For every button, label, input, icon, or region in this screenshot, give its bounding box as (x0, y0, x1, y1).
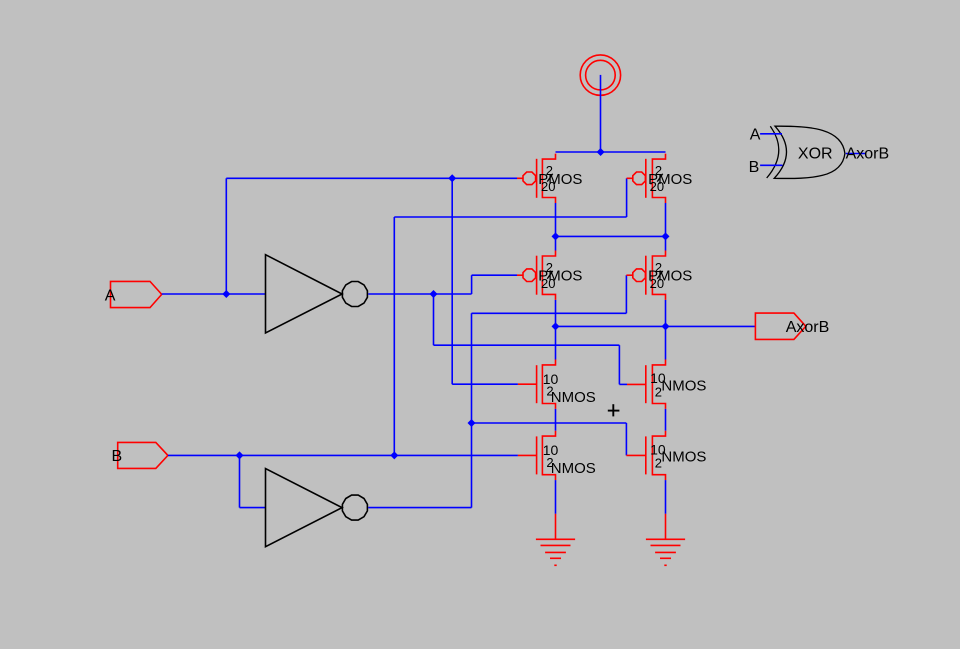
ground left (536, 514, 575, 566)
transistor PMOS mid-left (523, 251, 556, 300)
wire A pin to junction (162, 293, 227, 295)
wire Abar to corner (434, 293, 472, 295)
wire B to PMOS1 right gate circle (627, 177, 634, 179)
value label 2/20 PMOS top-right (648, 163, 692, 194)
wire Abar to NMOS1 right gate lead (619, 383, 627, 385)
value label 10/2 NMOS upper-right (650, 370, 706, 399)
wire Bbar down to NMOS2 right gate (625, 423, 627, 455)
value label 10/2 NMOS lower-right (650, 441, 706, 470)
wire Abar lower horizontal (434, 344, 620, 346)
node middle right junction (662, 232, 670, 240)
wire output to NMOS1 left (555, 326, 557, 359)
node output left junction (552, 322, 560, 330)
inverter U1 (A) (266, 255, 368, 333)
node A top junction (448, 174, 456, 182)
value label 2/20 PMOS mid-left (538, 260, 582, 291)
node A junction (222, 290, 230, 298)
wire Abar up (471, 275, 473, 294)
wire B down to inverter2 (239, 455, 241, 507)
value label 2/20 PMOS top-left (538, 163, 582, 194)
transistor PMOS top-right (633, 154, 666, 203)
wire XOR input B (760, 164, 782, 166)
transistor PMOS top-left (523, 154, 556, 203)
wire NMOS2 left to ground (555, 480, 557, 514)
XOR gate symbol (767, 126, 845, 178)
wire B to NMOS2 left gate (394, 454, 518, 456)
svg-text:A: A (105, 288, 116, 305)
wire XOR input A (760, 133, 782, 135)
node B junction 2 (390, 451, 398, 459)
wire PMOS2 right drain down (665, 300, 667, 327)
node Abar junction (430, 290, 438, 298)
svg-text:PMOS: PMOS (648, 268, 692, 285)
wire A up (225, 178, 227, 294)
node middle left junction (552, 232, 560, 240)
svg-text:B: B (749, 159, 760, 176)
wire Abar down to NMOS1 right gate (618, 345, 620, 384)
svg-text:NMOS: NMOS (661, 378, 706, 395)
ground right (646, 514, 685, 566)
wire middle rail (556, 235, 666, 237)
wire Abar down (433, 294, 435, 345)
output pin AxorB (755, 313, 805, 339)
wire A to NMOS1 left gate (452, 383, 518, 385)
value label 10/2 NMOS upper-left (543, 371, 596, 406)
svg-text:A: A (750, 126, 761, 143)
wire PMOS2 left drain down (555, 300, 557, 327)
svg-text:PMOS: PMOS (648, 171, 692, 188)
svg-text:AxorB: AxorB (786, 319, 830, 336)
wire NMOS2 right to ground (665, 480, 667, 514)
svg-text:NMOS: NMOS (661, 449, 706, 466)
transistor NMOS upper-right (627, 360, 666, 409)
wire Bbar to PMOS2 right gate circle (626, 274, 633, 276)
node output right junction (662, 322, 670, 330)
svg-text:PMOS: PMOS (538, 171, 582, 188)
svg-text:B: B (112, 448, 123, 465)
wire VDD vertical (600, 75, 602, 152)
wire to PMOS2 left source (555, 236, 557, 250)
transistor PMOS mid-right (633, 251, 666, 300)
wire B top horizontal (394, 216, 626, 218)
PMOS mid-left gate lead (517, 274, 523, 276)
wire B to second junction (240, 454, 395, 456)
value label 2/20 PMOS mid-right (648, 260, 692, 291)
svg-text:PMOS: PMOS (538, 268, 582, 285)
value label 10/2 NMOS lower-left (543, 442, 596, 477)
PMOS top-left gate lead (517, 177, 523, 179)
wire to PMOS2 right source (665, 236, 667, 250)
cell center mark (608, 404, 620, 416)
wire NMOS1-NMOS2 right (665, 409, 667, 431)
node B junction 1 (236, 451, 244, 459)
wire Bbar up to PMOS2 right gate (625, 275, 627, 313)
inverter U2 (B) (266, 469, 368, 547)
svg-text:NMOS: NMOS (551, 460, 596, 477)
svg-text:XOR: XOR (798, 145, 833, 162)
wire A junction to inverter (226, 293, 265, 295)
wire XOR output (846, 153, 866, 155)
wire PMOS1 left drain down (555, 203, 557, 236)
wire output to NMOS1 right (665, 326, 667, 359)
wire NMOS1-NMOS2 left (555, 409, 557, 431)
svg-text:AxorB: AxorB (846, 145, 890, 162)
input pin A (111, 281, 162, 307)
transistor NMOS upper-left (518, 360, 556, 409)
wire Bbar vertical (471, 313, 473, 507)
power VDD symbol (580, 55, 620, 95)
wire B inverter2 input (240, 507, 266, 509)
wire B pin to first junction (168, 454, 240, 456)
transistor NMOS lower-right (626, 431, 665, 480)
svg-text:NMOS: NMOS (551, 389, 596, 406)
wire B up to PMOS1 right gate (626, 178, 628, 217)
wire Bbar top horizontal (472, 312, 627, 314)
wire Bbar from bubble (368, 507, 471, 509)
node Bbar junction (468, 419, 476, 427)
wire Abar from bubble (368, 293, 433, 295)
wire VDD rail horizontal (556, 151, 666, 153)
transistor NMOS lower-left (518, 431, 556, 480)
wire Abar to PMOS2 left gate circle (472, 274, 517, 276)
node VDD junction (597, 148, 605, 156)
wire output rail (556, 325, 756, 327)
wire B up (393, 217, 395, 455)
wire Bbar branch horizontal (472, 422, 627, 424)
wire A down to NMOS1 left (451, 178, 453, 384)
wire PMOS1 right drain down (665, 203, 667, 236)
input pin B (118, 442, 168, 468)
wire A top horizontal (226, 177, 517, 179)
